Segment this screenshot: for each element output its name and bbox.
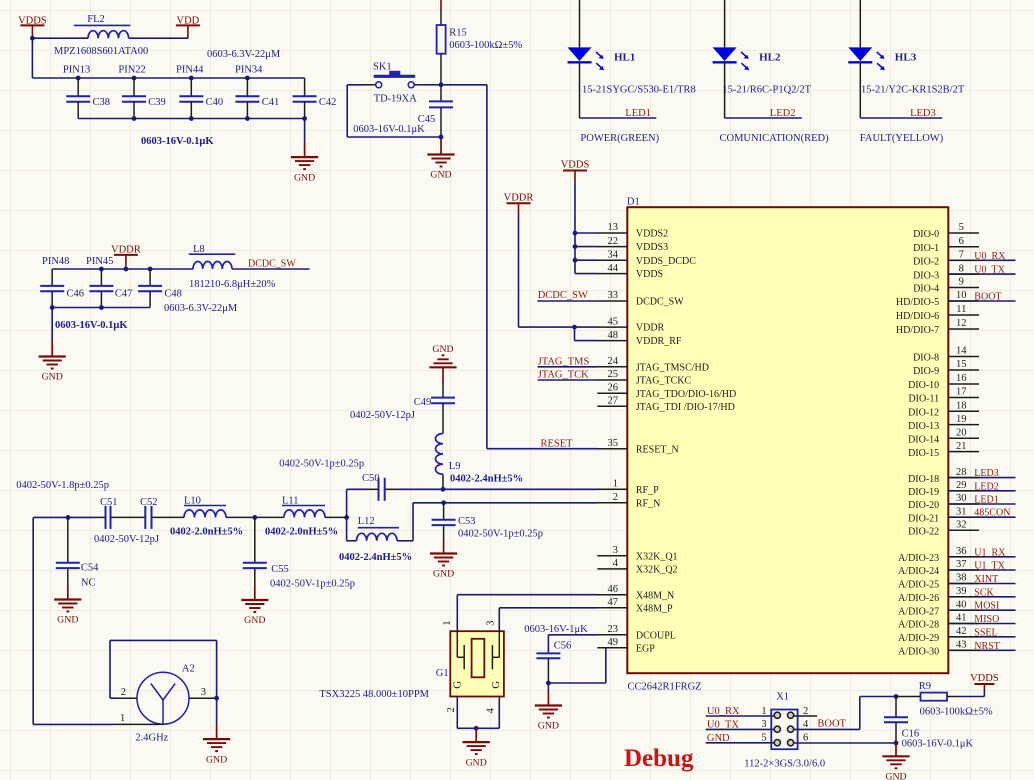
junction RF_P node [441, 487, 446, 492]
wire antenna pin1 feed [33, 723, 113, 725]
svg-text:37: 37 [956, 559, 967, 570]
svg-text:3: 3 [201, 687, 206, 698]
svg-text:25: 25 [608, 369, 619, 380]
svg-text:HD/DIO-7: HD/DIO-7 [896, 325, 939, 336]
D1 pin 3 X32K_Q1 [597, 545, 677, 562]
D1 pin 19 DIO-13 [908, 414, 979, 432]
svg-text:PIN13: PIN13 [63, 65, 90, 76]
svg-text:LED1: LED1 [625, 108, 651, 119]
wire antenna feed vertical [32, 517, 34, 724]
power port VDD [176, 15, 200, 38]
svg-text:7: 7 [959, 250, 964, 261]
svg-text:A/DIO-27: A/DIO-27 [898, 606, 939, 617]
D1 pin 26 JTAG_TDO/DIO-16/HD [597, 382, 736, 399]
svg-text:JTAG_TCK: JTAG_TCK [538, 370, 589, 381]
svg-text:DIO-12: DIO-12 [908, 408, 939, 419]
svg-text:0402-50V-1p±0.25p: 0402-50V-1p±0.25p [279, 459, 364, 470]
wire C51-C52 [111, 516, 146, 518]
svg-text:30: 30 [956, 493, 967, 504]
svg-text:G: G [490, 681, 502, 689]
svg-text:TD-19XA: TD-19XA [374, 94, 418, 105]
junction PIN44 [189, 76, 194, 81]
svg-text:FAULT(YELLOW): FAULT(YELLOW) [860, 133, 944, 144]
capacitor C47 [89, 269, 132, 308]
ground GND (C54) [54, 585, 81, 626]
svg-text:X48M_P: X48M_P [636, 603, 673, 614]
svg-text:RF_N: RF_N [636, 498, 660, 509]
svg-text:C42: C42 [319, 97, 337, 108]
svg-text:GND: GND [433, 569, 454, 580]
svg-text:38: 38 [956, 573, 967, 584]
svg-text:4: 4 [613, 558, 619, 569]
junction C41 bottom [245, 116, 250, 121]
junction C47 bottom [99, 305, 104, 310]
svg-text:RESET: RESET [541, 439, 574, 450]
svg-text:GND: GND [57, 615, 78, 626]
svg-text:6: 6 [803, 733, 808, 744]
svg-text:NC: NC [81, 577, 96, 588]
svg-text:JTAG_TDO/DIO-16/HD: JTAG_TDO/DIO-16/HD [636, 389, 736, 400]
svg-text:1: 1 [613, 479, 618, 490]
svg-text:DIO-15: DIO-15 [908, 448, 939, 459]
IC D1 CC2642R1FRGZ (body) [627, 207, 948, 673]
wire HL2 cathode to net label [724, 62, 726, 118]
svg-text:DIO-3: DIO-3 [913, 270, 939, 281]
svg-text:DIO-10: DIO-10 [908, 380, 939, 391]
junction C40 bottom [189, 116, 194, 121]
wire RF_N rail to pin 2 [413, 502, 598, 504]
svg-text:DIO-1: DIO-1 [913, 243, 939, 254]
D1 pin 35 RESET_N [597, 438, 678, 455]
svg-text:13: 13 [608, 222, 619, 233]
svg-text:112-2×3GS/3.0/6.0: 112-2×3GS/3.0/6.0 [744, 758, 825, 769]
wire FL2 to VDD [129, 37, 188, 39]
D1 pin 34 VDDS_DCDC [597, 249, 696, 266]
svg-text:31: 31 [956, 506, 967, 517]
D1 pin 32 DIO-22 [908, 520, 979, 538]
D1 pin 7 DIO-2 net U0_RX [913, 250, 1015, 268]
svg-text:1: 1 [442, 620, 453, 625]
svg-text:0603-16V-1μK: 0603-16V-1μK [524, 624, 588, 635]
wire HL1 cathode to net label [579, 62, 581, 118]
svg-text:18: 18 [956, 401, 967, 412]
svg-text:181210-6.8μH±20%: 181210-6.8μH±20% [189, 279, 276, 290]
inductor L12 [347, 516, 413, 541]
svg-text:L12: L12 [358, 516, 375, 527]
X1 pin 3 wire / net label U0_TX [706, 719, 775, 730]
svg-text:DIO-22: DIO-22 [908, 527, 939, 538]
D1 pin 42 A/DIO-29 net SSEL [898, 626, 1015, 644]
svg-text:FL2: FL2 [87, 14, 105, 25]
power port VDDR (middle-left) [111, 245, 141, 270]
wire RESET node to RESET_N pin (long) [441, 84, 487, 86]
svg-text:DIO-8: DIO-8 [913, 353, 939, 364]
D1 pin 11 HD/DIO-6 [896, 304, 979, 322]
D1 pin 14 DIO-8 [913, 346, 979, 364]
D1 pin 17 DIO-11 [908, 387, 979, 405]
svg-text:11: 11 [956, 304, 966, 315]
wire HL3 cathode to net label [859, 62, 861, 118]
capacitor C56 [536, 641, 571, 684]
svg-text:COMUNICATION(RED): COMUNICATION(RED) [720, 133, 830, 144]
D1 pin 27 JTAG_TDI /DIO-17/HD [597, 396, 735, 413]
D1 pin 40 A/DIO-27 net MOSI [898, 599, 1015, 617]
power port VDDS (bottom-right) [970, 673, 999, 689]
svg-text:3: 3 [485, 620, 496, 625]
ground GND (C56) [535, 683, 562, 732]
svg-text:VDDS3: VDDS3 [636, 242, 668, 253]
svg-text:0402-50V-1p±0.25p: 0402-50V-1p±0.25p [458, 529, 543, 540]
svg-text:G1: G1 [436, 668, 449, 679]
svg-text:X32K_Q2: X32K_Q2 [636, 565, 678, 576]
junction RF rail / C50 / L12 node [344, 515, 349, 520]
svg-text:14: 14 [956, 346, 967, 357]
wire G1 pin3 to X48M_P [498, 608, 500, 631]
svg-text:RF_P: RF_P [636, 485, 659, 496]
svg-text:26: 26 [608, 382, 619, 393]
svg-text:15: 15 [956, 359, 967, 370]
svg-text:0603-6.3V-22μM: 0603-6.3V-22μM [164, 303, 238, 314]
X1 pin 5 wire / net label GND [706, 733, 775, 744]
svg-text:X32K_Q1: X32K_Q1 [636, 551, 678, 562]
svg-text:0603-100kΩ±5%: 0603-100kΩ±5% [449, 40, 522, 51]
wire JTAG_TCK to pin 25 [538, 379, 598, 381]
X1 pin 6 wire to C16 bottom [794, 733, 896, 744]
svg-text:0402-50V-12pJ: 0402-50V-12pJ [94, 534, 159, 545]
svg-text:46: 46 [608, 584, 619, 595]
svg-text:HL1: HL1 [614, 51, 635, 63]
svg-text:U1_RX: U1_RX [974, 547, 1006, 558]
svg-text:15-21/Y2C-KR1S2B/2T: 15-21/Y2C-KR1S2B/2T [861, 85, 965, 96]
D1 pin 29 DIO-19 net LED2 [908, 480, 1015, 498]
junction A2 pin3 / GND [214, 696, 219, 701]
capacitor C45 [418, 85, 453, 137]
wire EGP loop to C56 bottom [548, 682, 605, 684]
svg-text:PIN48: PIN48 [42, 256, 69, 267]
svg-text:VDDS: VDDS [18, 15, 47, 26]
svg-text:VDDR: VDDR [636, 323, 665, 334]
svg-text:3: 3 [761, 719, 766, 730]
junction VDDR pins node [572, 325, 577, 330]
svg-text:HD/DIO-5: HD/DIO-5 [896, 297, 939, 308]
svg-text:Debug: Debug [624, 745, 694, 772]
ground GND (top-left rail) [291, 119, 318, 184]
svg-text:DIO-19: DIO-19 [908, 487, 939, 498]
junction C45 bottom / GND [439, 135, 444, 140]
wire C52 to L10 [152, 516, 185, 518]
svg-text:1: 1 [761, 706, 766, 717]
svg-text:44: 44 [608, 263, 619, 274]
svg-text:LED2: LED2 [974, 481, 998, 492]
svg-text:VDDR: VDDR [111, 245, 141, 256]
svg-text:A2: A2 [182, 663, 195, 674]
D1 pin 44 VDDS [597, 263, 663, 280]
svg-text:LED3: LED3 [974, 468, 998, 479]
svg-text:C40: C40 [206, 97, 224, 108]
svg-text:GND: GND [707, 733, 730, 744]
svg-text:R15: R15 [449, 27, 467, 38]
svg-text:VDDR: VDDR [504, 193, 534, 204]
svg-text:X1: X1 [776, 692, 789, 703]
svg-text:C48: C48 [164, 289, 182, 300]
svg-text:RESET_N: RESET_N [636, 444, 679, 455]
svg-text:0402-50V-1.8p±0.25p: 0402-50V-1.8p±0.25p [16, 480, 109, 491]
ferrite bead FL2 [74, 14, 131, 38]
wire decoupling bottom rail [78, 118, 304, 120]
D1 pin 41 A/DIO-28 net MISO [898, 613, 1015, 631]
svg-text:5: 5 [761, 733, 766, 744]
D1 pin 28 DIO-18 net LED3 [908, 467, 1015, 485]
svg-text:41: 41 [956, 613, 967, 624]
svg-text:45: 45 [608, 316, 619, 327]
svg-text:15-21SYGC/S530-E1/TR8: 15-21SYGC/S530-E1/TR8 [582, 85, 696, 96]
svg-text:8: 8 [959, 263, 964, 274]
svg-text:XINT: XINT [974, 574, 998, 585]
LED HL2 [713, 0, 781, 70]
junction VDDR stem [124, 267, 129, 272]
capacitor C41 [235, 78, 279, 119]
svg-text:2: 2 [613, 492, 618, 503]
svg-text:JTAG_TCKC: JTAG_TCKC [636, 376, 692, 387]
junction C55 tap [252, 515, 257, 520]
svg-text:NRST: NRST [974, 641, 1000, 652]
D1 pin 23 DCOUPL [597, 624, 676, 641]
capacitor C50 [347, 473, 385, 501]
svg-text:DIO-21: DIO-21 [908, 513, 939, 524]
svg-text:GND: GND [430, 170, 451, 181]
wire VDDS to VDDS pins [574, 181, 576, 274]
connector X1 (body) [771, 710, 797, 750]
svg-text:JTAG_TMS: JTAG_TMS [538, 356, 590, 367]
svg-text:CC2642R1FRGZ: CC2642R1FRGZ [628, 682, 702, 693]
svg-text:29: 29 [956, 480, 967, 491]
junction VDDS/FL2 node [30, 36, 35, 41]
svg-text:U0_RX: U0_RX [974, 251, 1006, 262]
svg-text:U0_TX: U0_TX [707, 719, 739, 730]
junction C46 bottom / GND tap [50, 305, 55, 310]
svg-text:34: 34 [608, 249, 619, 260]
D1 pin 37 A/DIO-24 net U1_TX [898, 559, 1015, 577]
capacitor C48 [138, 269, 182, 308]
D1 pin 30 DIO-20 net LED1 [908, 493, 1015, 511]
svg-text:MOSI: MOSI [974, 601, 999, 612]
svg-text:22: 22 [608, 236, 619, 247]
svg-text:LED3: LED3 [910, 108, 936, 119]
svg-text:DCOUPL: DCOUPL [636, 630, 676, 641]
wire RF rail C51 segment [33, 516, 95, 518]
svg-text:HD/DIO-6: HD/DIO-6 [896, 311, 939, 322]
ground GND (A2) [203, 698, 230, 765]
power port VDDS (near D1) [561, 160, 590, 182]
capacitor C46 [40, 269, 84, 308]
capacitor C52 [140, 497, 158, 529]
svg-text:GND: GND [206, 754, 227, 765]
D1 pin 8 DIO-3 net U0_TX [913, 263, 1015, 281]
ground GND (middle-left) [39, 308, 66, 383]
D1 pin 18 DIO-12 [908, 401, 979, 419]
resistor R9 [896, 681, 960, 700]
svg-text:VDD: VDD [177, 15, 200, 26]
svg-text:4: 4 [803, 719, 809, 730]
svg-text:C47: C47 [115, 289, 133, 300]
svg-text:U1_TX: U1_TX [974, 561, 1005, 572]
svg-text:36: 36 [956, 546, 967, 557]
svg-text:DIO-18: DIO-18 [908, 474, 939, 485]
svg-text:POWER(GREEN): POWER(GREEN) [580, 133, 659, 144]
junction VDDS pin13 row [573, 231, 578, 236]
svg-text:DIO-0: DIO-0 [913, 229, 939, 240]
capacitor C53 [432, 503, 476, 539]
svg-text:VDDS2: VDDS2 [636, 229, 668, 240]
capacitor C42 [293, 78, 337, 119]
svg-text:GND: GND [466, 757, 487, 768]
svg-text:C52: C52 [140, 497, 158, 508]
wire VDDR to pins 45/48 [518, 214, 520, 327]
svg-text:12: 12 [956, 318, 967, 329]
svg-text:DIO-9: DIO-9 [913, 366, 939, 377]
pushbutton SK1 [373, 62, 415, 88]
svg-text:VDDS: VDDS [561, 160, 590, 171]
inductor L9 (vertical) [436, 434, 461, 490]
svg-text:HL3: HL3 [895, 51, 917, 63]
svg-text:20: 20 [956, 428, 967, 439]
svg-text:A/DIO-26: A/DIO-26 [898, 593, 939, 604]
svg-text:23: 23 [608, 624, 619, 635]
svg-text:48: 48 [608, 330, 619, 341]
svg-text:39: 39 [956, 586, 967, 597]
svg-text:2.4GHz: 2.4GHz [135, 733, 168, 744]
svg-text:C46: C46 [67, 289, 85, 300]
svg-text:PIN45: PIN45 [86, 256, 113, 267]
junction VDDS pin34 row [573, 258, 578, 263]
svg-text:U0_RX: U0_RX [707, 706, 740, 717]
svg-text:0603-16V-0.1μK: 0603-16V-0.1μK [141, 136, 214, 147]
svg-text:DIO-13: DIO-13 [908, 421, 939, 432]
D1 pin 49 EGP [597, 637, 655, 654]
svg-text:SCK: SCK [974, 587, 994, 598]
D1 pin 13 VDDS2 [597, 222, 668, 239]
svg-text:33: 33 [608, 290, 619, 301]
wire SK1 left to ground loop [347, 84, 365, 86]
inductor L11 [282, 496, 325, 518]
svg-text:BOOT: BOOT [817, 718, 846, 729]
svg-text:0402-2.4nH±5%: 0402-2.4nH±5% [339, 552, 412, 563]
svg-text:C49: C49 [414, 397, 432, 408]
svg-text:19: 19 [956, 414, 967, 425]
X1 pin 2 stub [794, 706, 818, 717]
capacitor C16 [884, 697, 919, 744]
ground GND (above C49, inverted) [429, 344, 456, 382]
wire antenna pin2 loop [110, 697, 118, 699]
power port VDDS (top-left) [18, 15, 47, 38]
svg-text:485CON: 485CON [974, 508, 1010, 519]
junction PIN13 [76, 76, 81, 81]
svg-text:GND: GND [885, 772, 906, 780]
wire VDDR rail [52, 268, 193, 270]
svg-text:MPZ1608S601ATA00: MPZ1608S601ATA00 [54, 46, 148, 57]
svg-text:6: 6 [959, 236, 964, 247]
D1 pin 4 X32K_Q2 [597, 558, 677, 575]
svg-text:DCDC_SW: DCDC_SW [538, 290, 588, 301]
svg-text:2: 2 [803, 706, 808, 717]
svg-text:5: 5 [959, 222, 964, 233]
svg-text:42: 42 [956, 626, 967, 637]
capacitor C38 [66, 78, 110, 119]
wire JTAG_TMS to pin 24 [538, 366, 598, 368]
svg-text:DIO-20: DIO-20 [908, 500, 939, 511]
svg-text:C50: C50 [362, 473, 380, 484]
wire DCDC_SW to pin 33 [538, 300, 598, 302]
svg-text:GND: GND [42, 372, 63, 383]
svg-text:DCDC_SW: DCDC_SW [248, 259, 296, 270]
svg-text:0603-16V-0.1μK: 0603-16V-0.1μK [55, 320, 128, 331]
D1 pin 22 VDDS3 [597, 236, 668, 253]
svg-text:15-21/R6C-P1Q2/2T: 15-21/R6C-P1Q2/2T [722, 85, 811, 96]
svg-text:A/DIO-28: A/DIO-28 [898, 620, 939, 631]
D1 pin 45 VDDR [597, 316, 664, 333]
svg-text:32: 32 [956, 520, 967, 531]
D1 pin 6 DIO-1 [913, 236, 979, 254]
svg-text:JTAG_TMSC/HD: JTAG_TMSC/HD [636, 362, 709, 373]
svg-text:47: 47 [608, 597, 619, 608]
svg-text:A/DIO-30: A/DIO-30 [898, 647, 939, 658]
D1 pin 24 JTAG_TMSC/HD [597, 356, 709, 373]
svg-text:DIO-11: DIO-11 [908, 394, 939, 405]
wire VDDR caps bottom rail [52, 307, 150, 309]
wire antenna pin3 [189, 697, 212, 699]
X1 pin 4 wire / net label BOOT [794, 718, 860, 730]
svg-text:35: 35 [608, 438, 619, 449]
wire L12 riser to RF_N [412, 503, 414, 541]
svg-text:D1: D1 [627, 197, 640, 208]
X1 contact circles [774, 712, 794, 746]
junction PIN22 [132, 76, 137, 81]
svg-text:GND: GND [432, 344, 453, 355]
junction G1 ground node [474, 726, 479, 731]
svg-text:PIN34: PIN34 [235, 65, 263, 76]
D1 pin 5 DIO-0 [913, 222, 979, 240]
svg-text:C55: C55 [271, 564, 289, 575]
junction C42 bottom / GND tap [302, 116, 307, 121]
svg-text:C54: C54 [81, 563, 99, 574]
D1 pin 21 DIO-15 [908, 441, 979, 459]
wire L10 to L11 [226, 516, 284, 518]
D1 pin 38 A/DIO-25 net XINT [898, 573, 1015, 591]
X1 pin 1 wire / net label U0_RX [706, 706, 775, 717]
svg-text:PIN22: PIN22 [118, 65, 145, 76]
svg-text:0402-2.0nH±5%: 0402-2.0nH±5% [265, 527, 338, 538]
svg-text:L9: L9 [449, 461, 461, 472]
wire SK1 right to R15/C45 node [414, 84, 426, 86]
D1 pin 25 JTAG_TCKC [597, 369, 691, 386]
ground GND (C16) [882, 743, 909, 780]
svg-text:DIO-4: DIO-4 [913, 284, 939, 295]
svg-text:1: 1 [120, 713, 125, 724]
capacitor C39 [122, 78, 166, 119]
junction C47 top [99, 267, 104, 272]
capacitor C55 [243, 517, 289, 585]
svg-text:LED2: LED2 [770, 108, 796, 119]
svg-text:G: G [452, 681, 464, 689]
junction RF_N / C53 node [441, 500, 446, 505]
svg-text:0603-16V-0.1μK: 0603-16V-0.1μK [353, 124, 425, 135]
svg-text:27: 27 [608, 396, 619, 407]
svg-text:GND: GND [244, 615, 265, 626]
svg-text:0603-6.3V-22μM: 0603-6.3V-22μM [207, 49, 281, 60]
svg-text:SSEL: SSEL [974, 627, 997, 638]
svg-text:3: 3 [613, 545, 618, 556]
svg-text:0402-50V-12pJ: 0402-50V-12pJ [350, 410, 415, 421]
